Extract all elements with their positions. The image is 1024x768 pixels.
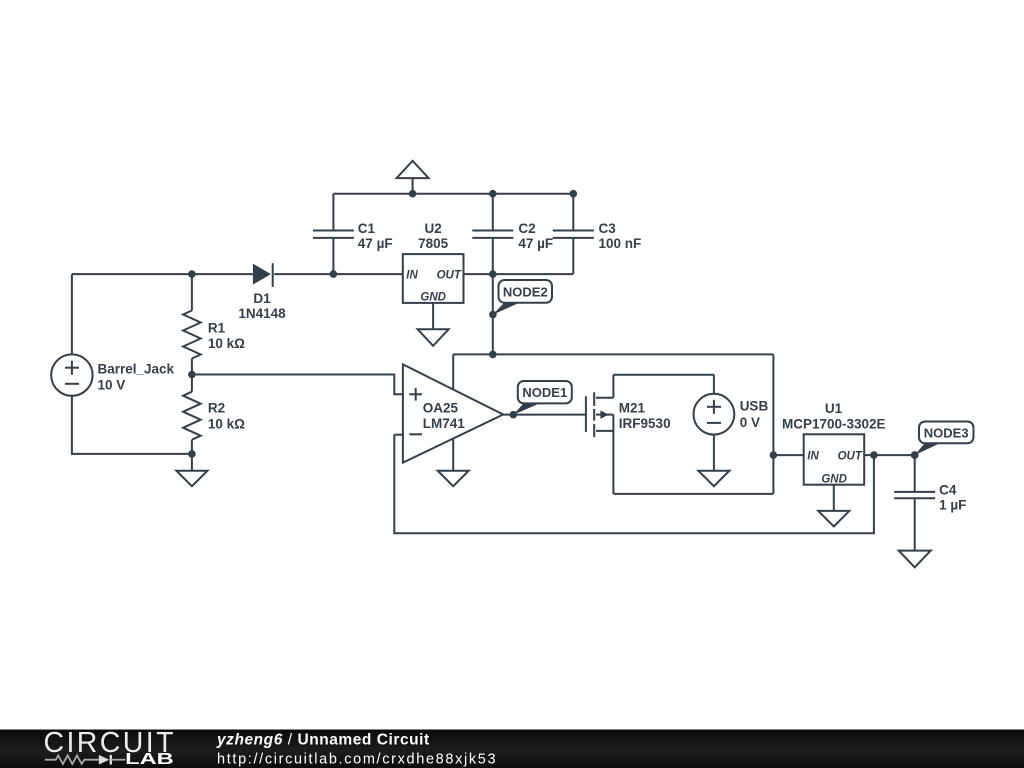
voltage source Barrel_Jack: [51, 354, 174, 395]
regulator U2 7805: [403, 221, 464, 304]
svg-text:C1: C1: [358, 221, 376, 236]
svg-text:M21: M21: [619, 401, 646, 416]
net flag NODE1: [510, 381, 572, 419]
svg-text:C2: C2: [518, 221, 535, 236]
wire mid node to op-amp: [192, 375, 403, 395]
junction dot R1-R2: [188, 371, 196, 379]
svg-text:100 nF: 100 nF: [599, 236, 642, 251]
svg-text:LM741: LM741: [423, 416, 466, 431]
svg-text:D1: D1: [253, 291, 271, 306]
capacitor C1: [313, 194, 393, 274]
ground under R2: [176, 454, 207, 486]
svg-text:yzheng6 / Unnamed Circuit: yzheng6 / Unnamed Circuit: [216, 731, 430, 748]
svg-text:LAB: LAB: [125, 751, 174, 768]
junction dot rail-NODE2: [489, 351, 497, 359]
net flag NODE3: [911, 422, 974, 459]
wire source top: [71, 274, 73, 354]
transistor M21 IRF9530: [586, 375, 671, 494]
ground under U1: [818, 485, 849, 527]
diode D1: [238, 263, 286, 321]
junction dot C1 bottom: [330, 270, 338, 278]
svg-text:U1: U1: [825, 401, 843, 416]
svg-text:C4: C4: [939, 482, 957, 497]
svg-text:GND: GND: [821, 473, 847, 485]
capacitor C3: [553, 194, 641, 274]
resistor R1: [183, 274, 245, 374]
svg-text:IRF9530: IRF9530: [619, 416, 671, 431]
svg-text:NODE1: NODE1: [522, 385, 567, 400]
junction dot C4 top: [911, 451, 919, 459]
voltage source USB: [694, 375, 769, 435]
svg-text:R1: R1: [208, 320, 226, 335]
svg-text:10 kΩ: 10 kΩ: [208, 336, 245, 351]
wire top rail: [333, 193, 573, 195]
wire feedback loop: [394, 435, 874, 534]
resistor R2: [183, 375, 245, 454]
junction dot VCC-rail: [409, 190, 417, 198]
svg-text:47 µF: 47 µF: [358, 236, 393, 251]
svg-text:C3: C3: [599, 221, 617, 236]
net flag NODE2: [489, 280, 552, 318]
wire op-amp V+: [452, 354, 454, 389]
regulator U1 MCP1700-3302E: [782, 401, 886, 485]
svg-text:GND: GND: [420, 292, 446, 304]
junction dot U1 out: [870, 451, 878, 459]
junction dot out-C2: [489, 270, 497, 278]
wire op-amp minus input: [394, 434, 403, 436]
svg-text:1 µF: 1 µF: [939, 497, 966, 512]
svg-text:OUT: OUT: [838, 451, 863, 463]
svg-text:Barrel_Jack: Barrel_Jack: [98, 362, 175, 377]
svg-text:7805: 7805: [418, 236, 449, 251]
junction dot U1 in: [770, 451, 778, 459]
op-amp OA25 LM741: [403, 364, 503, 462]
wire to U1 in: [773, 454, 803, 456]
svg-text:IN: IN: [406, 270, 418, 282]
svg-text:IN: IN: [807, 451, 819, 463]
wire input left: [72, 273, 253, 275]
svg-text:MCP1700-3302E: MCP1700-3302E: [782, 417, 886, 432]
junction dot R1 top: [188, 270, 196, 278]
wire drain rail: [613, 374, 714, 376]
svg-text:1N4148: 1N4148: [238, 306, 286, 321]
wire source bottom: [72, 396, 192, 454]
svg-text:USB: USB: [740, 399, 769, 414]
capacitor C4: [894, 455, 966, 558]
svg-text:0 V: 0 V: [740, 415, 760, 430]
wire U2 out: [464, 273, 574, 275]
wire V+ rail: [453, 353, 773, 355]
svg-text:http://circuitlab.com/crxdhe88: http://circuitlab.com/crxdhe88xjk53: [217, 751, 497, 767]
junction dot rail-C2: [489, 190, 497, 198]
wire op-amp output: [503, 414, 586, 416]
svg-text:U2: U2: [424, 221, 441, 236]
capacitor C2: [472, 194, 553, 355]
wire U1 out: [864, 454, 915, 456]
svg-text:NODE2: NODE2: [503, 284, 548, 299]
power flag VCC: [397, 161, 429, 194]
svg-text:10 kΩ: 10 kΩ: [208, 416, 245, 431]
junction dot rail-C3: [570, 190, 578, 198]
svg-text:OA25: OA25: [423, 401, 459, 416]
ground under U2: [418, 303, 449, 346]
footer bar: [0, 730, 1024, 768]
svg-text:10 V: 10 V: [98, 378, 126, 393]
ground under op-amp: [438, 439, 469, 486]
junction dot bottom: [188, 450, 196, 458]
svg-text:47 µF: 47 µF: [518, 236, 553, 251]
wire diode to U2: [274, 273, 403, 275]
ground under C4: [899, 551, 931, 568]
svg-text:OUT: OUT: [437, 270, 462, 282]
svg-text:NODE3: NODE3: [924, 426, 969, 441]
wire bottom edge: [613, 493, 773, 495]
ground under USB: [698, 435, 729, 487]
svg-text:R2: R2: [208, 401, 225, 416]
wire right edge: [772, 354, 774, 494]
logo resistor-diode wire: [45, 755, 126, 765]
